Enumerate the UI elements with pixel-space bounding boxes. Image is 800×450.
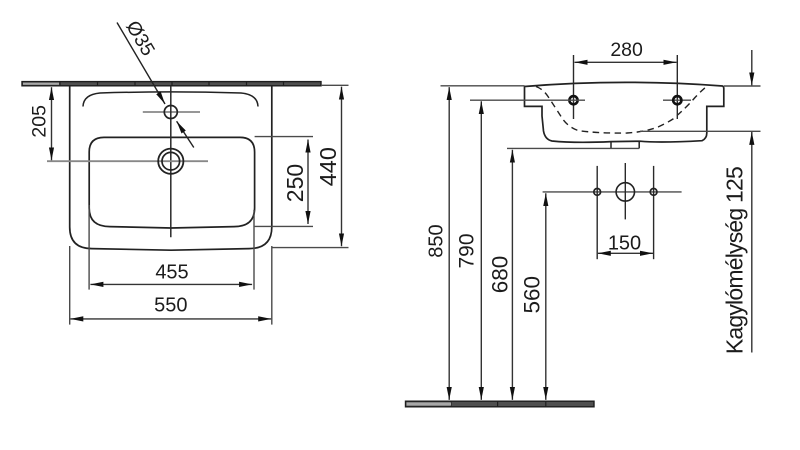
svg-text:560: 560 <box>520 276 545 314</box>
dimension 680 <box>488 150 513 400</box>
extension line 850 top <box>441 85 525 87</box>
drain outlet (top view) <box>158 149 183 174</box>
drain centerline horizontal <box>47 160 208 162</box>
svg-text:550: 550 <box>154 294 187 316</box>
basin interior dashed arc (side view) <box>536 86 708 134</box>
svg-text:280: 280 <box>610 39 643 61</box>
svg-text:150: 150 <box>608 233 641 255</box>
dimension 280 <box>575 39 677 62</box>
mounting hole right <box>663 55 691 119</box>
leader line Ø35 <box>117 17 194 148</box>
extension line 680 / drain boss bottom <box>507 147 639 149</box>
dimension 850 <box>426 87 450 400</box>
dimension 150 <box>598 233 653 255</box>
dimension 550 <box>70 246 272 325</box>
svg-text:205: 205 <box>29 105 51 138</box>
mounting hole left <box>569 55 577 119</box>
drain boss (side view) <box>611 141 639 148</box>
faucet hole Ø35 <box>164 106 177 119</box>
svg-text:790: 790 <box>455 233 478 268</box>
wall section bar (top view) <box>22 82 321 86</box>
dimension 440 <box>273 85 349 247</box>
dimension 560 <box>520 193 546 400</box>
floor line <box>406 401 595 407</box>
svg-text:Kagylómélység 125: Kagylómélység 125 <box>722 167 748 354</box>
extension line 790 / mounting holes <box>470 99 585 101</box>
dimension 205 <box>29 87 52 160</box>
inner basin bowl (top view) <box>89 137 254 228</box>
basin profile outline (side view) <box>525 82 724 142</box>
basin outer rim (top view) <box>70 86 272 250</box>
basin deck edge arc (top view) <box>83 92 258 107</box>
centerline vertical (top view) <box>170 86 172 237</box>
basin depth dimension 125 (Kagylómélység) <box>640 50 761 354</box>
dimension 455 <box>89 205 254 290</box>
dimension 250 <box>255 137 313 227</box>
svg-text:440: 440 <box>315 147 341 186</box>
svg-text:250: 250 <box>282 164 308 202</box>
svg-text:680: 680 <box>488 256 513 294</box>
svg-text:850: 850 <box>426 224 448 257</box>
fixing bolt pattern (side view) <box>594 163 657 259</box>
faucet hole Ø35 crosshair <box>143 111 200 113</box>
svg-text:455: 455 <box>155 261 188 283</box>
extension line 560 / bolt line <box>543 191 682 193</box>
dimension 790 <box>455 101 481 400</box>
